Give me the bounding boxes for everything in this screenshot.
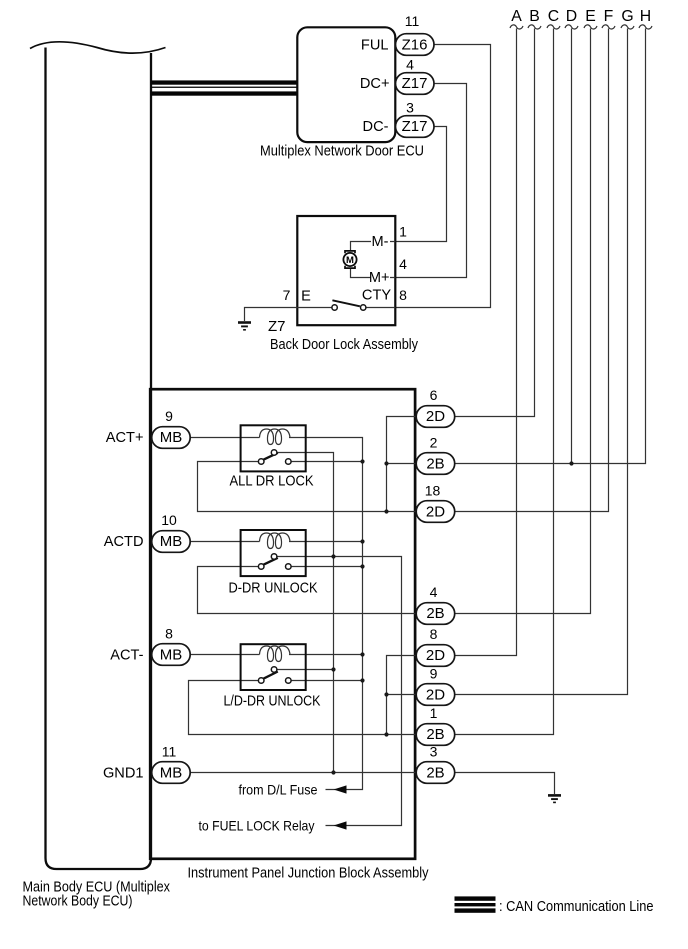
relay L/D-DR UNLOCK right contact [286,678,292,684]
pin label M- [371,234,390,248]
relay D-DR UNLOCK box [241,530,306,576]
wire 2D pin 6 to node B [455,29,535,417]
svg-text:2: 2 [430,435,438,451]
svg-text:M+: M+ [369,270,390,286]
svg-text:2B: 2B [426,765,444,782]
junction fuse bus / D-DR UNLOCK coil [360,539,364,543]
svg-text:CTY: CTY [362,287,391,303]
svg-text:E: E [301,288,311,304]
svg-text:DC+: DC+ [360,76,390,92]
svg-text:4: 4 [406,57,414,73]
svg-text:L/D-DR UNLOCK: L/D-DR UNLOCK [224,694,321,710]
connector Z17 pin 4 [396,73,435,95]
svg-text:D: D [566,8,577,25]
relay ALL DR LOCK coil [260,429,291,445]
wire 2D pin 18 to node F [455,29,609,512]
svg-text:Z17: Z17 [402,118,428,135]
relay ALL DR LOCK switch lever [262,453,277,460]
wire M- inside box [351,242,396,251]
junction 2D pin 18 wire [384,509,388,513]
svg-text:Multiplex Network Door ECU: Multiplex Network Door ECU [260,144,424,160]
svg-text:11: 11 [405,13,420,29]
junction lever bus / GND1 wire [331,770,335,774]
relay L/D-DR UNLOCK box [241,644,306,690]
svg-text:from D/L Fuse: from D/L Fuse [239,781,318,797]
connector MB pin 8 (ACT-) [152,644,191,666]
connector 2B pin 2 [416,453,455,475]
svg-text:2B: 2B [426,605,444,622]
wire 2D pin 8 to node A [455,29,517,656]
node A break symbol [510,25,523,29]
wire ALL DR LOCK right contact to fuse bus [291,461,363,463]
svg-text:8: 8 [399,287,407,303]
svg-text:Network Body ECU): Network Body ECU) [23,894,133,910]
Instrument Panel Junction Block Assembly box [150,389,415,859]
svg-text:Z7: Z7 [268,318,286,335]
connector 2D pin 6 [416,406,455,428]
svg-text:MB: MB [160,647,183,664]
relay ALL DR LOCK left contact [258,459,264,465]
relay D-DR UNLOCK right contact [286,564,292,570]
svg-text:7: 7 [283,287,291,303]
wire 2B pin 4 to node E [455,29,591,614]
wire 2D pin 9 stub [387,694,417,696]
svg-text:4: 4 [430,584,438,600]
svg-text:2D: 2D [426,687,445,704]
relay D-DR UNLOCK left contact [258,564,264,570]
wire ALL DR LOCK left contact to 2D pin 18 [198,462,417,512]
svg-text:E: E [585,8,596,25]
svg-text:3: 3 [430,744,438,760]
svg-text:M: M [346,255,354,266]
wire ALL DR LOCK lever to lever bus (vertical x=333) [277,453,333,773]
svg-text:ACT+: ACT+ [106,430,144,446]
svg-text:2B: 2B [426,726,444,743]
connector MB pin 11 (GND1) [152,762,191,784]
connector MB pin 10 (ACTD) [152,531,191,553]
svg-text:GND1: GND1 [103,766,144,782]
Main Body ECU box wavy top edge [30,42,166,53]
connector Z16 pin 11 [396,34,435,56]
relay L/D-DR UNLOCK common contact [271,667,277,673]
wire 2D pin 8 to junction vertical x=386 lower [387,656,417,735]
wire 2B pin 2 stub [387,463,417,465]
node H break symbol [639,25,652,29]
svg-text:: CAN Communication Line: : CAN Communication Line [499,899,654,915]
svg-text:Z16: Z16 [402,37,428,54]
node B break symbol [528,25,541,29]
svg-text:Z17: Z17 [402,75,428,92]
svg-text:MB: MB [160,765,183,782]
svg-text:C: C [548,8,559,25]
junction fuse bus / D-DR UNLOCK contact [360,564,364,568]
junction lever bus / L/D-DR UNLOCK lever [331,667,335,671]
relay ALL DR LOCK right contact [286,459,292,465]
relay ALL DR LOCK box [241,425,306,471]
wire E pin 7 to ground [245,308,333,322]
connector 2D pin 8 [416,645,455,667]
wire D-DR UNLOCK lever to FUEL LOCK bus (vertical x=401.5) [277,557,401,826]
junction 2D pin 9 stub [384,692,388,696]
wire 2B pin 3 to ground [455,773,555,795]
node D break symbol [565,25,578,29]
svg-text:1: 1 [399,224,407,240]
svg-text:4: 4 [399,256,407,272]
wire L/D-DR UNLOCK right contact to fuse bus [291,680,363,682]
svg-text:2D: 2D [426,647,445,664]
svg-text:2B: 2B [426,456,444,473]
svg-text:MB: MB [160,429,183,446]
wire DC- Z17 to M- pin 1 [395,127,446,242]
wire D-DR UNLOCK left contact to 2B pin 4 [198,567,417,614]
svg-text:10: 10 [161,512,177,528]
switch CTY left contact (E side) [332,305,337,310]
svg-text:1: 1 [430,705,438,721]
connector 2D pin 9 [416,684,455,706]
svg-text:8: 8 [430,626,438,642]
svg-text:2D: 2D [426,408,445,425]
motor M bottom brush cap [345,266,355,268]
svg-text:DC-: DC- [363,119,389,135]
wire 2D pin 6 to junction vertical x=386 [387,417,417,512]
svg-text:8: 8 [165,626,173,642]
Main Body ECU (Multiplex Network Body ECU) box [46,48,152,870]
junction node D / 2B pin 2 wire [569,461,573,465]
junction 2B pin 1 wire [384,732,388,736]
svg-text:D-DR UNLOCK: D-DR UNLOCK [229,581,318,597]
CAN communication line (Main Body ECU to Door ECU) [151,80,298,84]
relay D-DR UNLOCK switch lever [262,558,277,565]
svg-text:Instrument Panel Junction Bloc: Instrument Panel Junction Block Assembly [188,866,430,882]
wire node D down to 2B pin 2 line [571,29,573,464]
svg-text:ALL DR LOCK: ALL DR LOCK [230,474,314,490]
svg-text:G: G [621,8,633,25]
svg-text:FUL: FUL [361,37,389,53]
node G break symbol [621,25,634,29]
svg-text:11: 11 [162,744,177,760]
svg-text:Back Door Lock Assembly: Back Door Lock Assembly [270,337,419,353]
wire M+ inside box [351,268,396,277]
Multiplex Network Door ECU box [297,27,395,142]
svg-text:9: 9 [430,666,438,682]
wire ACT- MB to L/D-DR UNLOCK coil [190,654,259,656]
relay L/D-DR UNLOCK left contact [258,678,264,684]
arrow to FUEL LOCK Relay [334,821,347,829]
wire CTY switch to right [366,307,396,309]
relay D-DR UNLOCK common contact [271,554,277,560]
junction 2B pin 2 stub [384,461,388,465]
junction lever bus / D-DR UNLOCK lever [331,554,335,558]
junction fuse bus / ALL DR LOCK contact [360,459,364,463]
wire L/D-DR UNLOCK lever to lever bus [277,669,333,671]
wire DC+ Z17 to M+ pin 4 [395,84,466,278]
wire 2B pin 1 to node C [455,29,554,735]
relay ALL DR LOCK common contact [271,450,277,456]
relay D-DR UNLOCK coil [260,533,291,549]
wire L/D-DR UNLOCK left contact to 2B pin 1 [189,681,417,735]
relay L/D-DR UNLOCK coil [260,646,291,662]
wire 2D pin 9 to node G [455,29,628,695]
wire 2B pin 2 to node H [455,29,646,464]
connector 2B pin 3 [416,762,455,784]
svg-text:MB: MB [160,533,183,550]
ground (body) [548,794,561,797]
svg-text:H: H [640,8,651,25]
svg-text:ACTD: ACTD [104,534,144,550]
connector MB pin 9 (ACT+) [152,427,191,449]
relay L/D-DR UNLOCK switch lever [262,672,277,680]
wire D-DR UNLOCK right contact to fuse bus [291,566,363,568]
connector Z17 pin 3 [396,116,435,138]
wire D-DR UNLOCK coil to fuse bus [289,541,363,543]
svg-text:ACT-: ACT- [110,648,143,664]
wire FUL Z16 to CTY pin 8 [395,45,490,308]
svg-text:3: 3 [406,100,414,116]
switch CTY lever [332,300,360,306]
connector 2B pin 1 [416,724,455,746]
svg-text:M-: M- [371,234,388,250]
connector 2D pin 18 [416,501,455,523]
svg-text:B: B [529,8,540,25]
pin label M+ [371,270,390,284]
node C break symbol [547,25,560,29]
svg-text:2D: 2D [426,504,445,521]
wire ACT+ MB to ALL DR LOCK coil [190,437,259,439]
svg-text:A: A [511,8,522,25]
svg-text:to FUEL LOCK Relay: to FUEL LOCK Relay [199,817,315,833]
svg-text:18: 18 [425,483,441,499]
junction fuse bus / L/D-DR UNLOCK coil [360,652,364,656]
svg-text:F: F [604,8,614,25]
svg-text:9: 9 [165,408,173,424]
wire L/D-DR UNLOCK coil to fuse bus [289,654,363,656]
node E break symbol [584,25,597,29]
switch CTY right contact [361,305,366,310]
wire GND1 MB to 2B pin 3 [190,772,416,774]
node F break symbol [602,25,615,29]
arrow from D/L Fuse [334,785,347,793]
wire ALL DR LOCK coil to D/L fuse bus (vertical x=362.5) [289,438,363,790]
motor M top brush cap [345,251,355,253]
wire ACTD MB to D-DR UNLOCK coil [190,541,259,543]
junction fuse bus / L/D-DR UNLOCK contact [360,678,364,682]
legend CAN Communication Line symbol [455,896,496,900]
ground (back door lock) [238,321,251,324]
Back Door Lock Assembly Z7 box [297,216,395,325]
motor M body [343,253,356,266]
svg-text:6: 6 [430,387,438,403]
connector 2B pin 4 [416,603,455,625]
